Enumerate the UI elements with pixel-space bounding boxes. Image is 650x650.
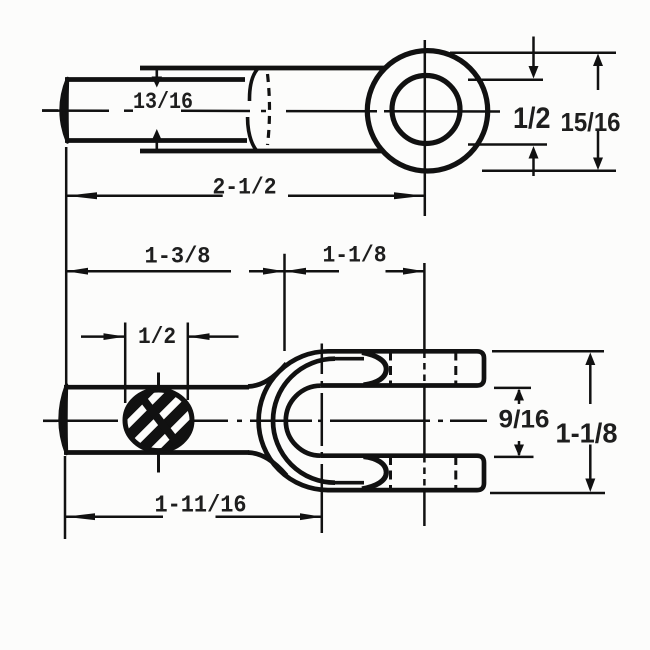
dim 1/2 (eye hole): outside arrows xyxy=(529,37,539,177)
svg-text:1-11/16: 1-11/16 xyxy=(155,492,247,519)
bottom tine outline xyxy=(321,456,484,490)
dim 1-1/8 (right) extension lines xyxy=(490,351,605,493)
svg-text:15/16: 15/16 xyxy=(561,109,621,137)
dim 9/16 extension lines xyxy=(494,388,534,457)
hidden (dashed) transition line xyxy=(268,74,270,145)
svg-text:1-1/8: 1-1/8 xyxy=(556,418,618,449)
svg-text:9/16: 9/16 xyxy=(499,405,550,433)
dim 1/2 (section) extension lines xyxy=(125,323,188,404)
dim 1-1/8 (top) line with arrows xyxy=(284,268,424,275)
rod left end cap (bottom figure) xyxy=(43,385,67,454)
dim 13/16: bottom arrow xyxy=(152,129,162,152)
svg-text:13/16: 13/16 xyxy=(133,89,193,115)
dim 1-3/8 line with arrows xyxy=(66,268,284,275)
top tine slot-end hook xyxy=(362,353,386,385)
svg-text:1-1/8: 1-1/8 xyxy=(323,243,387,269)
svg-text:1/2: 1/2 xyxy=(513,102,551,135)
horizontal center line (bottom figure) xyxy=(43,420,487,423)
fork outer U arc xyxy=(259,351,328,490)
hidden dash lines in bottom tine xyxy=(391,456,456,490)
extension line between dims (x=284.5) xyxy=(283,254,286,351)
shank (wider flat section) outline xyxy=(140,68,384,151)
rod body lines (bottom figure) xyxy=(64,387,249,452)
right side extension lines (eye) xyxy=(450,53,616,171)
hidden dash lines in top tine xyxy=(391,352,456,386)
eye vertical center line xyxy=(424,40,427,216)
rod body lines (top figure) xyxy=(65,80,247,141)
horizontal center line (top figure) xyxy=(42,109,500,112)
left extension line (shared, x=66) xyxy=(65,147,68,384)
transition fillet curves rod->shank xyxy=(248,69,258,151)
fork middle U arc xyxy=(273,359,335,483)
dim 9/16 arrows xyxy=(514,389,524,457)
fork slot U arc xyxy=(286,386,321,456)
fork vertical center line xyxy=(321,344,324,534)
long extension line (x=424.4) xyxy=(423,263,426,526)
eye inner circle (hole) xyxy=(392,76,460,144)
dim 1/2 (section) arrows xyxy=(81,333,239,340)
dim 15/16: inside arrows xyxy=(593,54,603,171)
dim 1-1/8 (right) arrows xyxy=(585,353,595,493)
dim 1-11/16 line with arrows xyxy=(65,513,322,520)
middle arc extension lines xyxy=(335,359,364,483)
left extension line (bottom part) xyxy=(64,456,67,539)
section circle center ticks xyxy=(157,373,160,473)
hatched section circle xyxy=(112,386,205,479)
dim 2-1/2 line with arrows xyxy=(66,192,424,199)
eye outer circle xyxy=(367,51,487,171)
bottom tine slot-end hook xyxy=(362,457,386,489)
rod left end cap (top figure) xyxy=(42,79,68,143)
top tine outline xyxy=(321,351,484,385)
svg-text:1/2: 1/2 xyxy=(138,324,176,350)
dim 13/16: top arrow xyxy=(152,68,162,88)
svg-text:2-1/2: 2-1/2 xyxy=(213,174,277,200)
svg-text:1-3/8: 1-3/8 xyxy=(145,244,211,270)
fork transition S-curves xyxy=(248,364,287,476)
